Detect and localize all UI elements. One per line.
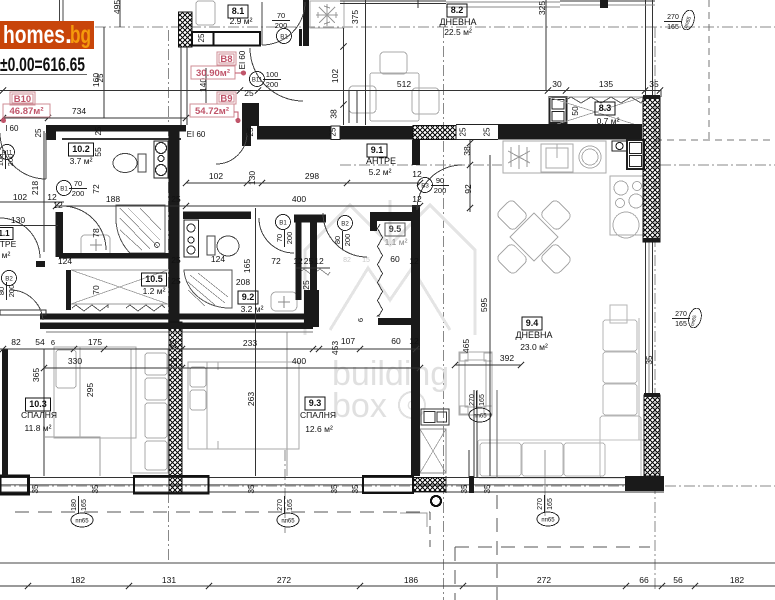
svg-text:B1: B1 — [279, 219, 287, 226]
svg-text:92: 92 — [463, 184, 473, 194]
svg-text:25: 25 — [197, 33, 206, 42]
svg-text:3.2 м²: 3.2 м² — [241, 304, 264, 314]
svg-text:165: 165 — [81, 499, 88, 511]
svg-text:38: 38 — [329, 109, 339, 119]
svg-text:270: 270 — [469, 394, 476, 406]
svg-text:35: 35 — [460, 484, 469, 493]
svg-text:1.1: 1.1 — [0, 229, 10, 238]
svg-text:5.2 м²: 5.2 м² — [369, 167, 392, 177]
svg-text:78: 78 — [91, 228, 101, 238]
svg-text:25: 25 — [301, 280, 311, 290]
svg-text:55: 55 — [93, 147, 103, 157]
svg-text:м²: м² — [2, 250, 11, 260]
svg-text:233: 233 — [243, 338, 257, 348]
svg-text:25: 25 — [169, 339, 178, 348]
svg-text:60: 60 — [391, 336, 401, 346]
svg-text:165: 165 — [287, 499, 294, 511]
svg-text:12.6 м²: 12.6 м² — [305, 424, 333, 434]
svg-text:EI 60: EI 60 — [187, 130, 206, 139]
svg-text:218: 218 — [30, 181, 40, 195]
svg-text:12: 12 — [314, 256, 324, 266]
svg-text:595: 595 — [479, 298, 489, 312]
svg-text:200: 200 — [7, 285, 16, 298]
svg-text:175: 175 — [88, 337, 102, 347]
svg-text:82: 82 — [343, 257, 351, 264]
svg-text:СПАЛНЯ: СПАЛНЯ — [300, 410, 336, 420]
svg-text:200: 200 — [72, 189, 85, 198]
svg-text:165: 165 — [547, 498, 554, 510]
svg-text:35: 35 — [483, 484, 492, 493]
svg-text:298: 298 — [305, 171, 319, 181]
svg-text:B9: B9 — [220, 93, 232, 104]
svg-text:6: 6 — [51, 338, 55, 347]
svg-text:90: 90 — [436, 176, 444, 185]
svg-text:140: 140 — [198, 78, 208, 92]
svg-text:B1: B1 — [60, 185, 68, 192]
svg-text:B11: B11 — [252, 76, 263, 83]
svg-text:102: 102 — [330, 69, 340, 83]
svg-text:734: 734 — [72, 106, 86, 116]
svg-text:12: 12 — [412, 194, 422, 204]
svg-text:25: 25 — [171, 276, 181, 286]
svg-text:B3: B3 — [421, 182, 429, 189]
svg-text:9.3: 9.3 — [309, 398, 322, 408]
svg-text:25: 25 — [244, 88, 254, 98]
svg-text:B2: B2 — [341, 220, 349, 227]
svg-text:50: 50 — [570, 106, 580, 116]
svg-text:35: 35 — [351, 484, 360, 493]
svg-text:70: 70 — [277, 11, 285, 20]
svg-text:325: 325 — [537, 1, 547, 15]
svg-text:102: 102 — [209, 171, 223, 181]
svg-text:10.2: 10.2 — [72, 144, 90, 154]
svg-text:107: 107 — [341, 336, 355, 346]
svg-text:пп65: пп65 — [75, 519, 89, 525]
svg-text:АНТРЕ: АНТРЕ — [366, 156, 396, 166]
svg-text:54.72м²: 54.72м² — [195, 106, 229, 117]
svg-text:12: 12 — [409, 336, 419, 346]
svg-text:124: 124 — [58, 256, 72, 266]
svg-text:8.2: 8.2 — [451, 5, 464, 15]
svg-text:165: 165 — [242, 259, 252, 273]
svg-text:box: box — [332, 387, 387, 425]
svg-text:102: 102 — [13, 192, 27, 202]
svg-text:72: 72 — [271, 256, 281, 266]
svg-text:100: 100 — [266, 70, 279, 79]
svg-text:25: 25 — [96, 73, 105, 82]
svg-text:124: 124 — [211, 254, 225, 264]
svg-text:80: 80 — [333, 236, 342, 244]
svg-text:186: 186 — [404, 575, 418, 585]
svg-text:465: 465 — [461, 339, 471, 353]
svg-text:25: 25 — [304, 256, 314, 266]
svg-text:8.3: 8.3 — [599, 103, 612, 113]
svg-text:200: 200 — [6, 154, 15, 167]
svg-text:180: 180 — [71, 499, 78, 511]
svg-text:9.2: 9.2 — [242, 292, 255, 302]
svg-text:ДНЕВНА: ДНЕВНА — [439, 17, 476, 27]
svg-text:165: 165 — [675, 321, 687, 328]
svg-text:25: 25 — [459, 127, 468, 136]
svg-text:100: 100 — [0, 154, 5, 167]
svg-text:B1: B1 — [280, 33, 288, 40]
svg-text:131: 131 — [162, 575, 176, 585]
svg-text:35: 35 — [330, 484, 339, 493]
svg-text:35: 35 — [31, 484, 40, 493]
svg-text:453: 453 — [330, 341, 340, 355]
svg-text:188: 188 — [106, 194, 120, 204]
svg-text:пп65: пп65 — [281, 519, 295, 525]
svg-text:130: 130 — [11, 215, 25, 225]
svg-text:400: 400 — [292, 356, 306, 366]
svg-text:270: 270 — [675, 311, 687, 318]
svg-text:130: 130 — [247, 171, 257, 185]
svg-text:200: 200 — [343, 234, 352, 247]
svg-text:6: 6 — [356, 318, 365, 322]
svg-text:46.87м²: 46.87м² — [10, 106, 44, 117]
svg-text:35: 35 — [649, 79, 659, 89]
svg-text:38: 38 — [462, 146, 472, 156]
svg-text:270: 270 — [537, 498, 544, 510]
svg-text:330: 330 — [68, 356, 82, 366]
svg-text:200: 200 — [285, 232, 294, 245]
svg-text:182: 182 — [730, 575, 744, 585]
svg-text:2.9 м²: 2.9 м² — [230, 16, 253, 26]
svg-text:35: 35 — [91, 484, 100, 493]
svg-text:22.5 м²: 22.5 м² — [444, 27, 472, 37]
svg-text:56: 56 — [673, 575, 683, 585]
svg-text:bg: bg — [70, 21, 91, 49]
svg-text:l 60: l 60 — [6, 124, 19, 133]
svg-text:35: 35 — [247, 484, 256, 493]
svg-text:263: 263 — [246, 392, 256, 406]
svg-text:200: 200 — [275, 21, 288, 30]
svg-text:392: 392 — [500, 353, 514, 363]
svg-text:375: 375 — [350, 10, 360, 24]
svg-text:11.8 м²: 11.8 м² — [25, 423, 52, 433]
svg-text:пп65: пп65 — [541, 518, 555, 524]
svg-text:0.7 м²: 0.7 м² — [597, 116, 620, 126]
svg-text:homes: homes — [3, 21, 65, 49]
svg-text:82: 82 — [11, 337, 21, 347]
svg-text:12: 12 — [409, 256, 419, 266]
svg-text:12: 12 — [53, 200, 63, 210]
svg-text:35: 35 — [645, 355, 654, 364]
svg-text:СПАЛНЯ: СПАЛНЯ — [21, 410, 57, 420]
svg-text:23.0 м²: 23.0 м² — [520, 342, 548, 352]
svg-text:пп65: пп65 — [473, 414, 487, 420]
svg-text:25: 25 — [34, 128, 43, 137]
svg-text:270: 270 — [277, 499, 284, 511]
svg-text:10.3: 10.3 — [29, 399, 47, 409]
svg-text:ТРЕ: ТРЕ — [0, 239, 17, 249]
svg-text:60: 60 — [390, 254, 400, 264]
svg-text:272: 272 — [537, 575, 551, 585]
svg-text:182: 182 — [71, 575, 85, 585]
svg-text:272: 272 — [277, 575, 291, 585]
svg-text:200: 200 — [434, 186, 447, 195]
svg-text:365: 365 — [31, 368, 41, 382]
svg-text:25: 25 — [171, 255, 181, 265]
svg-text:70: 70 — [91, 285, 101, 295]
svg-text:495: 495 — [112, 0, 122, 14]
svg-text:10.5: 10.5 — [145, 274, 163, 284]
svg-text:25: 25 — [170, 357, 179, 366]
svg-text:±0.00=616.65: ±0.00=616.65 — [0, 55, 85, 76]
svg-text:25: 25 — [171, 194, 181, 204]
svg-text:15: 15 — [362, 257, 370, 264]
svg-text:B10: B10 — [14, 94, 31, 105]
svg-text:12: 12 — [412, 169, 422, 179]
svg-text:70: 70 — [74, 179, 82, 188]
svg-text:B8: B8 — [220, 54, 232, 65]
svg-text:12: 12 — [293, 256, 303, 266]
svg-text:B2: B2 — [5, 275, 13, 282]
svg-text:70: 70 — [275, 234, 284, 242]
svg-text:30: 30 — [552, 79, 562, 89]
svg-text:270: 270 — [667, 14, 679, 21]
svg-text:72: 72 — [91, 184, 101, 194]
svg-text:165: 165 — [479, 394, 486, 406]
svg-text:54: 54 — [35, 337, 45, 347]
svg-text:8.1: 8.1 — [232, 6, 245, 16]
svg-text:80: 80 — [0, 287, 6, 295]
svg-text:295: 295 — [85, 383, 95, 397]
svg-text:1.1 м²: 1.1 м² — [385, 237, 408, 247]
svg-text:400: 400 — [292, 194, 306, 204]
svg-text:25: 25 — [94, 126, 103, 135]
svg-text:135: 135 — [599, 79, 613, 89]
svg-text:3.7 м²: 3.7 м² — [70, 156, 93, 166]
svg-text:ДНЕВНА: ДНЕВНА — [515, 330, 552, 340]
svg-text:200: 200 — [266, 80, 279, 89]
svg-text:25: 25 — [329, 127, 338, 136]
svg-text:25: 25 — [483, 127, 492, 136]
svg-text:66: 66 — [639, 575, 649, 585]
svg-text:25: 25 — [246, 127, 255, 136]
svg-text:9.5: 9.5 — [389, 224, 402, 234]
svg-text:EI 60: EI 60 — [238, 50, 247, 69]
svg-text:165: 165 — [667, 24, 679, 31]
svg-text:1.2 м²: 1.2 м² — [143, 286, 166, 296]
svg-text:9.1: 9.1 — [371, 145, 384, 155]
svg-text:512: 512 — [397, 79, 411, 89]
svg-text:9.4: 9.4 — [526, 318, 539, 328]
svg-text:208: 208 — [236, 277, 250, 287]
svg-text:30.90м²: 30.90м² — [196, 68, 230, 79]
